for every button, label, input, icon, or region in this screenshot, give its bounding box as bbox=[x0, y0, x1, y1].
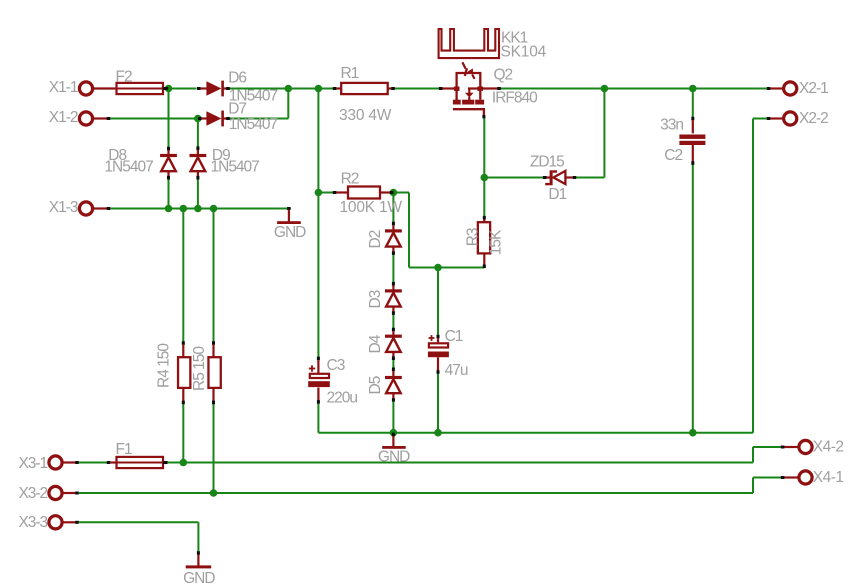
wire: X3-3 down to GND bbox=[197, 522, 199, 551]
svg-text:1N5407: 1N5407 bbox=[104, 158, 153, 175]
svg-text:F2: F2 bbox=[116, 69, 132, 86]
svg-text:R2: R2 bbox=[341, 171, 359, 188]
wire: X3-1 to F1 bbox=[79, 462, 107, 464]
connector X3-1 bbox=[18, 455, 78, 472]
junction: D6/D7 cathode node bbox=[285, 85, 293, 93]
wire: rail to R5 top bbox=[213, 209, 215, 342]
wire: C1 node down to C1 bbox=[437, 268, 439, 335]
wire: X2-2 drop to rail bbox=[752, 119, 754, 433]
connector X2-2 bbox=[767, 110, 828, 127]
wire: D7 cathode run bbox=[229, 118, 288, 120]
svg-text:D1: D1 bbox=[548, 186, 566, 203]
svg-text:15K: 15K bbox=[488, 229, 505, 255]
wire: X4-1 step bbox=[752, 478, 754, 494]
wire: X4-2 stub bbox=[753, 446, 781, 448]
zener diode D1 ZD15 bbox=[530, 153, 576, 203]
svg-text:GND: GND bbox=[183, 570, 215, 587]
diode D2 bbox=[367, 222, 402, 255]
fuse F2 bbox=[116, 69, 169, 95]
capacitor C3 bbox=[308, 357, 357, 407]
wire: D3-D4 link bbox=[392, 315, 394, 328]
wire: R2 node down to C3 bbox=[317, 193, 319, 357]
svg-text:X3-1: X3-1 bbox=[18, 455, 47, 472]
svg-text:R4 150: R4 150 bbox=[156, 343, 173, 388]
wire: C2 bottom to rail bbox=[692, 165, 694, 433]
junction: R2 input node bbox=[315, 189, 323, 197]
wire: X4-1 stub bbox=[753, 477, 781, 479]
svg-text:IRF840: IRF840 bbox=[492, 90, 538, 107]
svg-text:1N5407: 1N5407 bbox=[211, 158, 260, 175]
wire: rail to R4 top bbox=[182, 209, 184, 342]
diode D4 bbox=[367, 328, 402, 360]
connector X3-2 bbox=[18, 485, 78, 502]
svg-text:C2: C2 bbox=[664, 147, 682, 164]
wire: node to R1 branch node bbox=[288, 88, 318, 90]
junction: C1 bottom node bbox=[434, 429, 442, 437]
svg-text:33n: 33n bbox=[660, 117, 683, 134]
wire: bottom rail bbox=[318, 432, 753, 434]
svg-text:R3: R3 bbox=[465, 228, 482, 246]
junction: R5 top node bbox=[210, 205, 218, 213]
wire: D4-D5 link bbox=[392, 360, 394, 368]
wire: R4 bottom to X3-1 row bbox=[182, 404, 184, 463]
junction: F2 output node bbox=[165, 85, 173, 93]
fuse F1 bbox=[107, 441, 168, 468]
svg-text:1N5407: 1N5407 bbox=[229, 116, 278, 133]
svg-text:47u: 47u bbox=[445, 362, 468, 379]
connector X1-1 bbox=[49, 79, 117, 96]
svg-text:220u: 220u bbox=[327, 390, 358, 407]
svg-text:F1: F1 bbox=[116, 441, 132, 458]
wire: output down to C2 bbox=[692, 89, 694, 117]
diode D9 bbox=[190, 146, 260, 179]
svg-text:100K 1W: 100K 1W bbox=[340, 199, 403, 216]
svg-text:D4: D4 bbox=[367, 334, 384, 353]
wire: Q2 source to X2-1 bbox=[501, 88, 767, 90]
wire: X4-2 step bbox=[752, 447, 754, 463]
svg-text:X3-3: X3-3 bbox=[18, 514, 47, 531]
wire: C3 bottom to rail bbox=[317, 404, 319, 433]
wire: D9 to X1-3 rail bbox=[197, 179, 199, 208]
connector X4-2 bbox=[781, 439, 844, 456]
svg-text:X1-3: X1-3 bbox=[49, 199, 78, 216]
wire: F2 output to D6 anode bbox=[169, 88, 197, 90]
junction: D9 bottom node bbox=[194, 205, 202, 213]
connector X1-3 bbox=[49, 199, 111, 216]
heatsink KK1 bbox=[439, 29, 547, 60]
junction: D7 anode node bbox=[194, 115, 202, 123]
wire: F1 to X4-2 corner bbox=[167, 462, 753, 464]
diode D5 bbox=[367, 368, 402, 402]
wire: X1-2 to D7 anode node bbox=[110, 118, 198, 120]
wire: D5 to bottom rail bbox=[392, 402, 394, 433]
svg-text:X2-1: X2-1 bbox=[799, 80, 828, 97]
wire: R5 bottom to X3-2 row bbox=[213, 404, 215, 493]
resistor R3 bbox=[465, 216, 505, 268]
connector X4-1 bbox=[781, 469, 844, 486]
wire: D2-D3 link bbox=[392, 255, 394, 283]
svg-text:C1: C1 bbox=[445, 328, 463, 345]
svg-text:D2: D2 bbox=[367, 230, 384, 248]
wire: top node down to D8 bbox=[168, 89, 170, 148]
diode D8 bbox=[104, 147, 177, 180]
svg-text:X4-2: X4-2 bbox=[813, 439, 844, 456]
resistor R2 bbox=[333, 171, 403, 217]
svg-text:X1-1: X1-1 bbox=[49, 79, 78, 96]
wire: X2-2 stub bbox=[753, 118, 767, 120]
svg-text:GND: GND bbox=[378, 449, 410, 466]
ground below X3-3 bbox=[183, 551, 215, 587]
svg-text:X3-2: X3-2 bbox=[18, 485, 47, 502]
diode D3 bbox=[367, 282, 402, 315]
resistor R1 bbox=[333, 65, 395, 124]
wire: ZD15 to riser bbox=[576, 177, 604, 179]
junction: R4/X3-1 node bbox=[180, 459, 188, 467]
connector X1-2 bbox=[49, 109, 111, 126]
wire: R2 node to R2 left pin bbox=[318, 192, 333, 194]
resistor R4 bbox=[156, 341, 191, 404]
junction: R2 output node bbox=[390, 189, 398, 197]
transistor Q2 bbox=[439, 62, 538, 118]
wire: R2 output down to D2 bbox=[392, 193, 394, 223]
wire: branch node to R1 left pin bbox=[318, 88, 333, 90]
wire: X3-2 long run bbox=[79, 492, 753, 494]
wire: bypass to R3 bottom bbox=[409, 267, 484, 269]
wire: bypass down bbox=[408, 193, 410, 268]
junction: C1 top node bbox=[434, 264, 442, 272]
wire: C1 bottom to rail bbox=[437, 374, 439, 433]
wire: top branch down to R2 node bbox=[317, 89, 319, 193]
wire: D8 to X1-3 rail bbox=[168, 179, 170, 208]
wire: R1 right to Q2 drain bbox=[395, 88, 439, 90]
junction: R1 input branch node bbox=[315, 85, 323, 93]
junction: C2 bottom node bbox=[689, 429, 697, 437]
svg-text:X2-2: X2-2 bbox=[799, 110, 828, 127]
junction: R4 top node bbox=[180, 205, 188, 213]
svg-text:SK104: SK104 bbox=[501, 43, 547, 60]
svg-text:Q2: Q2 bbox=[494, 66, 513, 83]
junction: Q2 gate node bbox=[481, 174, 489, 182]
svg-text:D5: D5 bbox=[367, 376, 384, 394]
svg-text:R1: R1 bbox=[341, 65, 359, 82]
svg-text:ZD15: ZD15 bbox=[530, 153, 564, 170]
svg-text:D6: D6 bbox=[228, 69, 246, 86]
diode D6 bbox=[197, 69, 277, 104]
wire: ZD15 riser to output bbox=[603, 89, 605, 178]
ground below D5 chain bbox=[378, 433, 410, 466]
junction: R5/X3-2 node bbox=[210, 489, 218, 497]
svg-text:330 4W: 330 4W bbox=[339, 107, 392, 124]
wire: Q2 gate down to R3 bbox=[483, 118, 485, 216]
svg-text:R5 150: R5 150 bbox=[191, 346, 208, 391]
wire: gate node to ZD15 bbox=[484, 177, 543, 179]
wire: D6 cathode to node bbox=[229, 88, 288, 90]
connector X2-1 bbox=[767, 80, 828, 97]
svg-text:GND: GND bbox=[274, 224, 306, 241]
junction: chain ground node bbox=[390, 429, 398, 437]
svg-text:D3: D3 bbox=[367, 290, 384, 308]
wire: D7 node down to D9 bbox=[197, 119, 199, 147]
capacitor C2 bbox=[660, 117, 705, 165]
junction: C2 top node bbox=[689, 85, 697, 93]
svg-text:X1-2: X1-2 bbox=[49, 109, 78, 126]
resistor R5 bbox=[191, 341, 221, 404]
svg-text:C3: C3 bbox=[327, 357, 345, 374]
wire: X3-3 run bbox=[79, 521, 199, 523]
wire: R2 output bypass right bbox=[393, 192, 409, 194]
svg-text:X4-1: X4-1 bbox=[813, 469, 844, 486]
junction: D8 bottom node bbox=[165, 205, 173, 213]
connector X3-3 bbox=[18, 514, 78, 531]
wire: X1-3 rail bbox=[110, 208, 289, 210]
junction: ZD15 riser node bbox=[601, 85, 609, 93]
diode D7 bbox=[198, 101, 277, 133]
capacitor C1 bbox=[428, 328, 468, 379]
wire: D7 riser to top node bbox=[287, 89, 289, 119]
ground near X1-3 bbox=[274, 207, 306, 241]
